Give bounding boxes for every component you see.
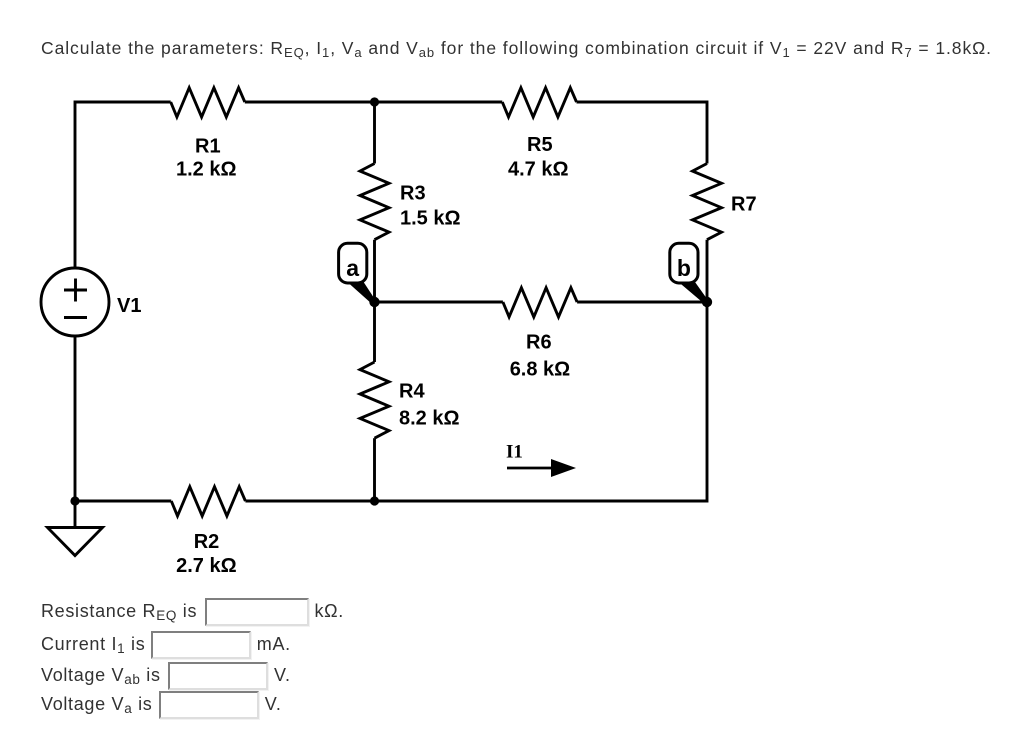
svg-text:R2: R2 bbox=[194, 531, 220, 553]
current I1 arrow bbox=[507, 459, 576, 477]
node b callout box bbox=[670, 243, 698, 283]
node a callout tail bbox=[344, 275, 376, 304]
svg-text:R7: R7 bbox=[731, 194, 757, 216]
svg-text:I1: I1 bbox=[506, 442, 523, 463]
ground wire stub bbox=[74, 501, 77, 528]
node b callout tail bbox=[675, 275, 709, 304]
wire middle column: R4 to bottom rail bbox=[373, 438, 376, 501]
svg-text:R4: R4 bbox=[399, 381, 425, 403]
question line voltage Va bbox=[41, 690, 282, 718]
svg-text:1.5 kΩ: 1.5 kΩ bbox=[400, 208, 461, 230]
wire top rail left: V1 top to R1 bbox=[75, 102, 171, 268]
junction dot node b bbox=[702, 297, 712, 307]
question line voltage Vab bbox=[41, 661, 291, 689]
resistor R5 bbox=[502, 88, 576, 117]
wire top rail right: R5 to right corner down to R7 bbox=[577, 102, 708, 164]
wire bottom rail to left node bbox=[75, 500, 171, 503]
junction dot top middle node bbox=[370, 97, 379, 106]
svg-text:R3: R3 bbox=[400, 183, 426, 205]
resistor R7 bbox=[693, 164, 722, 240]
svg-text:2.7 kΩ: 2.7 kΩ bbox=[176, 555, 237, 577]
wire middle column: R3 to node a to R4 bbox=[373, 240, 376, 362]
wire left rail below V1 bbox=[74, 336, 77, 501]
svg-text:6.8 kΩ: 6.8 kΩ bbox=[510, 359, 571, 381]
question line resistance REQ bbox=[41, 597, 344, 625]
node a callout box bbox=[339, 243, 367, 283]
svg-text:a: a bbox=[346, 255, 359, 281]
svg-text:8.2 kΩ: 8.2 kΩ bbox=[399, 408, 460, 430]
V1 minus sign bbox=[64, 316, 87, 319]
resistor R2 bbox=[171, 487, 245, 516]
resistor R4 bbox=[360, 362, 389, 438]
svg-text:1.2 kΩ: 1.2 kΩ bbox=[176, 159, 237, 181]
svg-text:R6: R6 bbox=[526, 332, 552, 354]
junction dot bottom left bbox=[70, 496, 79, 505]
wire right rail: R7 through node b to bottom right corner bbox=[375, 240, 707, 501]
resistor R3 bbox=[360, 164, 389, 240]
ground triangle bbox=[48, 528, 103, 556]
junction dot node a bbox=[369, 297, 379, 307]
voltage source V1 circle bbox=[41, 268, 109, 336]
svg-text:4.7 kΩ: 4.7 kΩ bbox=[508, 159, 569, 181]
question line current I1 bbox=[41, 630, 291, 658]
wire node a row: a to R6 bbox=[375, 301, 503, 304]
V1 plus sign bbox=[64, 279, 87, 302]
wire node a row: R6 to node b bbox=[577, 301, 707, 304]
wire bottom rail left of R2 bbox=[245, 500, 375, 503]
svg-text:R5: R5 bbox=[527, 134, 553, 156]
svg-text:V1: V1 bbox=[117, 295, 141, 317]
title question text bbox=[41, 40, 992, 58]
wire top rail middle: R1 to R5 bbox=[245, 101, 503, 104]
wire middle column: top node to R3 bbox=[373, 102, 376, 164]
junction dot bottom middle bbox=[370, 496, 379, 505]
svg-text:b: b bbox=[677, 255, 691, 281]
svg-text:R1: R1 bbox=[195, 136, 221, 158]
resistor R1 bbox=[171, 88, 245, 117]
resistor R6 bbox=[503, 288, 577, 317]
